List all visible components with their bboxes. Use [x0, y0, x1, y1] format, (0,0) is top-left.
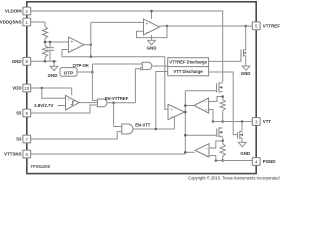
svg-text:GND: GND — [147, 46, 157, 51]
svg-text:OTP: OTP — [64, 71, 74, 76]
svg-text:EN-VTT: EN-VTT — [135, 122, 151, 127]
svg-text:2.8V/2.7V: 2.8V/2.7V — [34, 103, 53, 108]
svg-text:S3: S3 — [16, 137, 22, 142]
svg-text:+: + — [145, 22, 148, 28]
svg-text:VTT Discharge: VTT Discharge — [173, 69, 203, 74]
svg-text:PGND: PGND — [263, 159, 276, 164]
svg-text:+: + — [70, 40, 73, 46]
svg-text:EN-VTTREF: EN-VTTREF — [105, 96, 129, 101]
svg-text:−: − — [205, 101, 208, 106]
svg-text:GND: GND — [12, 59, 22, 64]
svg-text:VTT: VTT — [263, 119, 272, 124]
svg-text:+: + — [205, 155, 208, 160]
svg-text:GND: GND — [240, 151, 250, 156]
svg-text:−: − — [170, 116, 173, 121]
svg-text:S5: S5 — [16, 111, 22, 116]
svg-text:VTTREF Discharge: VTTREF Discharge — [169, 60, 207, 65]
svg-text:−: − — [70, 48, 73, 54]
svg-text:VTTSNS: VTTSNS — [4, 152, 21, 157]
svg-text:GND: GND — [241, 71, 251, 76]
svg-text:GND: GND — [48, 73, 58, 78]
svg-text:+: + — [67, 98, 70, 103]
svg-text:Copyright © 2016, Texas Instru: Copyright © 2016, Texas Instruments Inco… — [188, 175, 280, 180]
svg-text:TPS51206: TPS51206 — [31, 164, 51, 169]
svg-text:−: − — [205, 147, 208, 152]
svg-text:+: + — [205, 109, 208, 114]
svg-text:VTTREF: VTTREF — [263, 24, 280, 29]
svg-text:−: − — [145, 30, 148, 36]
svg-text:VLDOIN: VLDOIN — [5, 9, 22, 14]
svg-text:10: 10 — [24, 86, 30, 91]
svg-text:VDDQSNS: VDDQSNS — [0, 20, 22, 25]
svg-text:+: + — [170, 108, 173, 113]
svg-text:VDD: VDD — [12, 86, 21, 91]
svg-text:OTP-OK: OTP-OK — [73, 63, 89, 68]
